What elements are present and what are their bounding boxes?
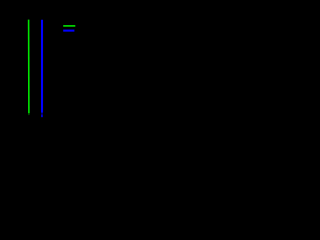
blue curve tail end blob [41,115,43,118]
green curve tail fade [28,113,30,115]
green curve (vertical line series) [28,20,30,114]
blue curve (vertical line series) [41,20,43,113]
blue curve tail (dim segment) [41,113,43,115]
legend green swatch [63,25,75,27]
legend blue swatch [63,30,74,32]
